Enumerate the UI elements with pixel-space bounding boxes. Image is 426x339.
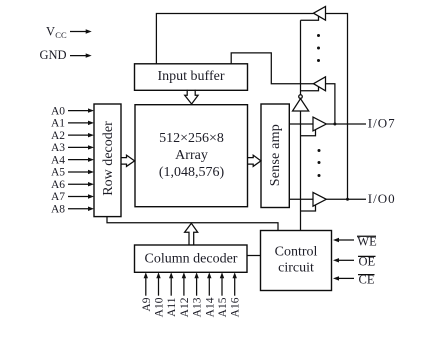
svg-text:Control: Control <box>275 245 318 260</box>
svg-text:Row decoder: Row decoder <box>101 121 116 196</box>
svg-text:Column decoder: Column decoder <box>145 252 238 267</box>
svg-text:A2: A2 <box>51 130 65 142</box>
svg-text:A8: A8 <box>51 203 65 215</box>
svg-text:A5: A5 <box>51 167 65 179</box>
svg-text:V: V <box>46 25 55 39</box>
svg-text:CC: CC <box>55 30 67 40</box>
svg-text:(1,048,576): (1,048,576) <box>159 165 225 180</box>
svg-text:Input buffer: Input buffer <box>158 69 225 84</box>
svg-text:circuit: circuit <box>278 261 314 276</box>
svg-text:GND: GND <box>40 48 67 62</box>
svg-text:A0: A0 <box>51 105 65 117</box>
svg-text:A1: A1 <box>51 118 65 130</box>
svg-text:A15: A15 <box>217 297 229 317</box>
svg-text:A12: A12 <box>179 297 191 317</box>
svg-text:A13: A13 <box>192 297 204 317</box>
svg-text:I/O7: I/O7 <box>368 115 395 130</box>
svg-text:A14: A14 <box>204 297 216 317</box>
svg-text:512×256×8: 512×256×8 <box>159 131 224 146</box>
svg-text:Array: Array <box>175 148 208 163</box>
svg-text:A10: A10 <box>154 297 166 317</box>
svg-text:A16: A16 <box>230 297 242 317</box>
svg-text:A11: A11 <box>166 297 178 317</box>
svg-text:A9: A9 <box>141 297 153 311</box>
svg-text:Sense amp: Sense amp <box>268 124 283 186</box>
svg-text:A7: A7 <box>51 191 65 203</box>
svg-text:I/O0: I/O0 <box>368 191 395 206</box>
svg-text:A3: A3 <box>51 142 65 154</box>
svg-text:A4: A4 <box>51 154 65 166</box>
svg-text:A6: A6 <box>51 179 65 191</box>
